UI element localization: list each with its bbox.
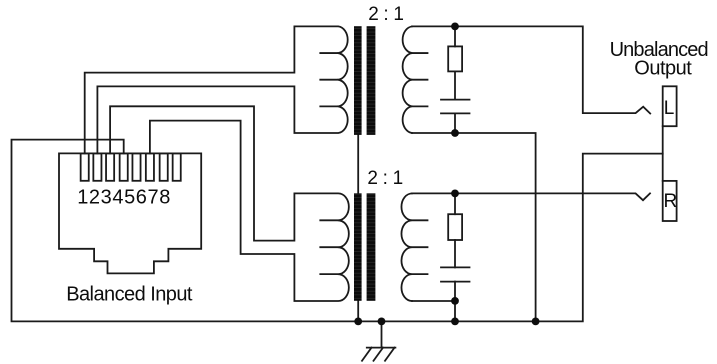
svg-text:12345678: 12345678: [77, 187, 171, 209]
svg-text:2 : 1: 2 : 1: [367, 168, 402, 189]
svg-text:Output: Output: [634, 58, 692, 80]
svg-text:R: R: [664, 191, 678, 212]
svg-text:Balanced Input: Balanced Input: [66, 283, 193, 305]
svg-text:L: L: [664, 98, 675, 119]
svg-text:2 : 1: 2 : 1: [368, 4, 403, 25]
